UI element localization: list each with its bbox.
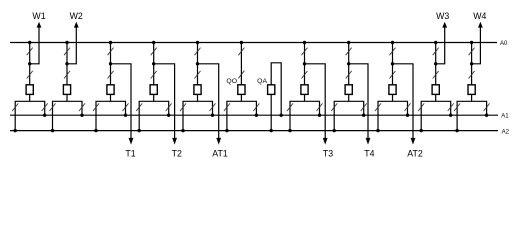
- junction dot T1 staple-right on A1: [124, 114, 127, 117]
- svg-text:T2: T2: [172, 149, 182, 159]
- fuse box QO: [238, 85, 245, 95]
- wire W2 staple-left leg to A2: [52, 115, 54, 130]
- junction dot AT1 on A0: [196, 41, 199, 44]
- wire drop W4 junction to fuse: [471, 64, 473, 85]
- junction dot T3 on A0: [303, 41, 306, 44]
- wire AT1 staple-left leg to A2: [182, 115, 184, 130]
- wire QO staple-left leg to A2: [226, 115, 228, 130]
- wire W3 fuse to staple: [435, 94, 437, 101]
- svg-text:W4: W4: [473, 11, 486, 21]
- wire T2 fuse to staple: [153, 94, 155, 101]
- wire drop T4 junction to fuse: [348, 64, 350, 85]
- junction dot W2 staple-right on A1: [80, 114, 83, 117]
- wire branch T3 to down arrow: [305, 64, 326, 138]
- junction dot QO staple-left on A2: [225, 129, 228, 132]
- junction dot T2 staple-left on A2: [138, 129, 141, 132]
- wire W4 fuse to staple: [471, 94, 473, 101]
- switch slash staple-right W1: [42, 103, 48, 111]
- switch slash staple-right T1: [123, 103, 129, 111]
- switch slash staple-right T2: [166, 103, 172, 111]
- wire branch W2 to up arrow: [67, 27, 76, 64]
- switch slash upper T4: [346, 48, 352, 56]
- fuse box AT2: [389, 85, 396, 95]
- arrow T3 (down): [323, 138, 328, 145]
- junction dot W1 staple-left on A2: [14, 129, 17, 132]
- wire drop T1 from A0 to junction: [110, 43, 112, 64]
- fuse box QA: [268, 85, 275, 95]
- svg-text:W3: W3: [436, 11, 449, 21]
- wire T3 fuse to staple: [304, 94, 306, 101]
- switch slash lower T1: [108, 71, 114, 79]
- wire drop QO from A0 to fuse: [240, 43, 242, 85]
- junction dot AT1 staple-right on A1: [211, 114, 214, 117]
- staple loop T3: [290, 101, 320, 115]
- fuse box T3: [301, 85, 308, 95]
- junction dot T3 staple-right on A1: [318, 114, 321, 117]
- junction dot AT2 on A0: [391, 41, 394, 44]
- wire drop AT2 junction to fuse: [392, 64, 394, 85]
- junction dot AT1 branch node: [196, 62, 199, 65]
- staple loop AT1: [183, 101, 213, 115]
- junction dot T2 branch node: [152, 62, 155, 65]
- wire branch AT2 to down arrow: [393, 64, 414, 138]
- wire branch W1 to up arrow: [30, 27, 39, 64]
- arrow W2 (up): [74, 22, 79, 28]
- wire drop W2 junction to fuse: [66, 64, 68, 85]
- junction dot W3 staple-left on A2: [420, 129, 423, 132]
- wire drop W1 from A0 to junction: [29, 43, 31, 64]
- junction dot T1 on A0: [109, 41, 112, 44]
- switch slash upper T2: [151, 48, 157, 56]
- staple loop QO: [227, 101, 257, 115]
- junction dot AT1 staple-left on A2: [181, 129, 184, 132]
- switch slash staple-right W3: [448, 103, 454, 111]
- svg-text:QO: QO: [226, 78, 237, 85]
- switch slash upper T3: [302, 48, 308, 56]
- switch slash staple-right AT2: [405, 103, 411, 111]
- wire drop T3 from A0 to junction: [304, 43, 306, 64]
- fuse box W4: [468, 85, 475, 95]
- switch slash lower T3: [302, 71, 308, 79]
- wire drop AT1 junction to fuse: [197, 64, 199, 85]
- switch slash upper AT1: [195, 48, 201, 56]
- wire drop W2 from A0 to junction: [66, 43, 68, 64]
- wire T1 fuse to staple: [110, 94, 112, 101]
- junction dot AT2 branch node: [391, 62, 394, 65]
- wire AT1 fuse to staple: [197, 94, 199, 101]
- switch slash staple-right T3: [317, 103, 323, 111]
- fuse box T1: [107, 85, 114, 95]
- junction dot W3 staple-right on A1: [449, 114, 452, 117]
- switch slash staple-right W2: [79, 103, 85, 111]
- svg-text:AT2: AT2: [407, 149, 423, 159]
- arrow T4 (down): [366, 138, 371, 145]
- wire W2 fuse to staple: [66, 94, 68, 101]
- junction dot W2 branch node: [65, 62, 68, 65]
- svg-text:T4: T4: [364, 149, 374, 159]
- arrow T2 (down): [172, 138, 177, 145]
- junction dot T3 staple-left on A2: [288, 129, 291, 132]
- junction dot T2 staple-right on A1: [167, 114, 170, 117]
- svg-text:AT1: AT1: [212, 149, 228, 159]
- staple loop T4: [334, 101, 364, 115]
- staple loop AT2: [378, 101, 408, 115]
- wire QA jog (up-over): [271, 63, 281, 115]
- switch slash lower W3: [433, 71, 439, 79]
- svg-text:T3: T3: [323, 149, 333, 159]
- wire drop W1 junction to fuse: [29, 64, 31, 85]
- junction dot T1 staple-left on A2: [94, 129, 97, 132]
- staple loop W3: [421, 101, 451, 115]
- switch slash upper W2: [64, 48, 70, 56]
- switch slash staple-left W4: [454, 103, 460, 111]
- switch slash staple-right W4: [484, 103, 490, 111]
- wire QA fuse to A2: [270, 94, 272, 130]
- junction dot T4 on A0: [347, 41, 350, 44]
- junction dot T4 staple-left on A2: [333, 129, 336, 132]
- wire drop T1 junction to fuse: [110, 64, 112, 85]
- junction dot T2 on A0: [152, 41, 155, 44]
- fuse box W2: [63, 85, 70, 95]
- switch slash staple-right AT1: [210, 103, 216, 111]
- fuse box W3: [432, 85, 439, 95]
- wire drop W3 junction to fuse: [435, 64, 437, 85]
- arrow W3 (up): [442, 22, 447, 28]
- junction dot W1 staple-right on A1: [43, 114, 46, 117]
- switch slash staple-left W2: [50, 103, 56, 111]
- switch slash staple-left T4: [331, 103, 337, 111]
- wire T1 staple-left leg to A2: [95, 115, 97, 130]
- wire drop T2 from A0 to junction: [153, 43, 155, 64]
- wire drop T3 junction to fuse: [304, 64, 306, 85]
- wire T3 staple-left leg to A2: [289, 115, 291, 130]
- switch slash upper W3: [433, 48, 439, 56]
- wire A2 bus: [10, 130, 498, 132]
- switch slash staple-left T2: [136, 103, 142, 111]
- switch slash upper AT2: [390, 48, 396, 56]
- svg-text:A2: A2: [502, 129, 510, 135]
- arrow W4 (up): [478, 22, 483, 28]
- junction dot W1 on A0: [28, 41, 31, 44]
- svg-text:A0: A0: [500, 41, 508, 47]
- switch slash staple-left T3: [287, 103, 293, 111]
- staple loop W2: [53, 101, 83, 115]
- staple loop W4: [457, 101, 487, 115]
- fuse box AT1: [194, 85, 201, 95]
- switch slash staple-left W3: [418, 103, 424, 111]
- wire A1 bus: [10, 114, 498, 116]
- junction dot AT2 staple-right on A1: [406, 114, 409, 117]
- wire branch T2 to down arrow: [154, 64, 175, 138]
- junction dot W2 staple-left on A2: [51, 129, 54, 132]
- switch slash staple-left AT1: [180, 103, 186, 111]
- junction dot W4 staple-left on A2: [455, 129, 458, 132]
- junction dot QA on A2: [270, 129, 273, 132]
- fuse box W1: [26, 85, 33, 95]
- staple loop W1: [15, 101, 45, 115]
- wire branch AT1 to down arrow: [198, 64, 219, 138]
- junction dot W1 branch node: [28, 62, 31, 65]
- wire W1 fuse to staple: [29, 94, 31, 101]
- switch slash upper T1: [108, 48, 114, 56]
- switch slash upper QO: [238, 48, 244, 56]
- wire drop T4 from A0 to junction: [348, 43, 350, 64]
- wire drop AT2 from A0 to junction: [392, 43, 394, 64]
- switch slash staple-left T1: [93, 103, 99, 111]
- staple loop T2: [139, 101, 169, 115]
- wire T4 staple-left leg to A2: [333, 115, 335, 130]
- switch slash lower T2: [151, 71, 157, 79]
- switch slash staple-left AT2: [375, 103, 381, 111]
- junction dot QO on A0: [240, 41, 243, 44]
- junction dot W3 branch node: [434, 62, 437, 65]
- switch slash staple-left QO: [224, 103, 230, 111]
- staple loop T1: [96, 101, 126, 115]
- switch slash staple-right T4: [361, 103, 367, 111]
- fuse box T4: [345, 85, 352, 95]
- svg-text:W2: W2: [70, 11, 83, 21]
- wire drop W3 from A0 to junction: [435, 43, 437, 64]
- arrow AT2 (down): [411, 138, 416, 145]
- wire drop W4 from A0 to junction: [471, 43, 473, 64]
- fuse box T2: [150, 85, 157, 95]
- wire AT2 staple-left leg to A2: [377, 115, 379, 130]
- switch slash staple-left W1: [12, 103, 18, 111]
- junction dot AT2 staple-left on A2: [376, 129, 379, 132]
- wire T2 staple-left leg to A2: [138, 115, 140, 130]
- svg-text:W1: W1: [32, 11, 45, 21]
- svg-text:T1: T1: [125, 149, 135, 159]
- junction dot QO staple-right on A1: [255, 114, 258, 117]
- wire W1 staple-left leg to A2: [14, 115, 16, 130]
- wire drop AT1 from A0 to junction: [197, 43, 199, 64]
- switch slash lower W2: [64, 71, 70, 79]
- switch slash lower T4: [346, 71, 352, 79]
- wire QO fuse to staple: [240, 94, 242, 101]
- wire branch T4 to down arrow: [349, 64, 368, 138]
- svg-text:A1: A1: [501, 114, 509, 120]
- junction dot T1 branch node: [109, 62, 112, 65]
- junction dot T4 branch node: [347, 62, 350, 65]
- switch slash lower QO: [238, 71, 244, 79]
- junction dot QA on A1: [280, 114, 283, 117]
- wire W3 staple-left leg to A2: [420, 115, 422, 130]
- wire AT2 fuse to staple: [392, 94, 394, 101]
- junction dot W4 on A0: [470, 41, 473, 44]
- switch slash upper W1: [27, 48, 33, 56]
- arrow W1 (up): [37, 22, 42, 28]
- arrow T1 (down): [129, 138, 134, 145]
- wire A0 bus: [10, 42, 497, 44]
- wire drop T2 junction to fuse: [153, 64, 155, 85]
- arrow AT1 (down): [216, 138, 221, 145]
- junction dot T4 staple-right on A1: [362, 114, 365, 117]
- svg-text:QA: QA: [257, 78, 267, 85]
- junction dot W3 on A0: [434, 41, 437, 44]
- switch slash upper W4: [469, 48, 475, 56]
- wire T4 fuse to staple: [348, 94, 350, 101]
- wire W4 staple-left leg to A2: [456, 115, 458, 130]
- switch slash staple-right QO: [253, 103, 259, 111]
- switch slash lower AT2: [390, 71, 396, 79]
- junction dot W2 on A0: [65, 41, 68, 44]
- switch slash lower AT1: [195, 71, 201, 79]
- wire branch T1 to down arrow: [111, 64, 132, 138]
- junction dot W4 branch node: [470, 62, 473, 65]
- wire branch W4 to up arrow: [472, 27, 481, 64]
- junction dot W4 staple-right on A1: [485, 114, 488, 117]
- switch slash lower W4: [469, 71, 475, 79]
- wire branch W3 to up arrow: [436, 27, 445, 64]
- switch slash lower W1: [27, 71, 33, 79]
- junction dot T3 branch node: [303, 62, 306, 65]
